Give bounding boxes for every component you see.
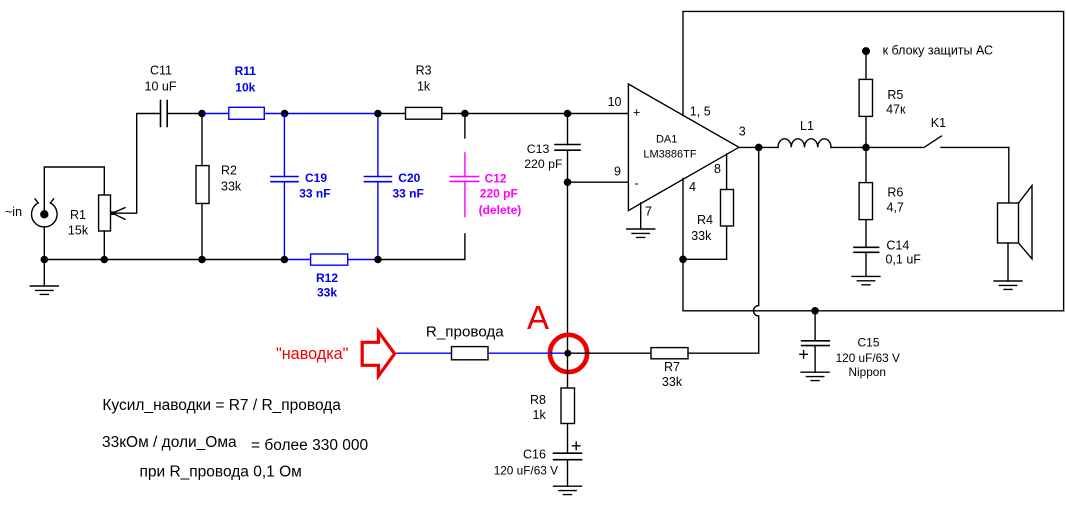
svg-text:= более 330 000: = более 330 000 — [251, 437, 369, 454]
svg-text:LM3886TF: LM3886TF — [643, 149, 696, 161]
wire C13 node down to node A — [567, 182, 569, 353]
svg-text:R5: R5 — [887, 88, 903, 102]
svg-text:C12: C12 — [485, 172, 507, 186]
node R4 bottom junction — [679, 255, 687, 263]
svg-text:33 nF: 33 nF — [299, 186, 330, 200]
wire L1 to K1 — [831, 146, 923, 148]
svg-text:R3: R3 — [416, 64, 432, 78]
node output — [755, 144, 763, 152]
svg-text:47к: 47к — [886, 103, 906, 117]
node R1 bottom — [101, 256, 109, 264]
svg-text:4,7: 4,7 — [887, 201, 904, 215]
svg-text:R6: R6 — [887, 186, 903, 200]
svg-text:при R_провода 0,1 Ом: при R_провода 0,1 Ом — [140, 463, 302, 480]
capacitor C15 — [800, 311, 900, 379]
node C13 top — [564, 110, 572, 118]
svg-text:C11: C11 — [150, 64, 172, 78]
wire R3 to op-amp — [442, 113, 629, 115]
op-amp DA1 LM3886TF — [628, 84, 739, 211]
output wire pin 3 — [739, 146, 778, 148]
svg-text:DA1: DA1 — [656, 133, 677, 145]
svg-text:-: - — [635, 177, 639, 191]
wire R1 bottom — [103, 231, 105, 260]
svg-text:"наводка": "наводка" — [276, 345, 349, 363]
svg-text:R1: R1 — [70, 208, 86, 222]
svg-text:1k: 1k — [533, 408, 547, 422]
svg-text:Кусил_наводки = R7 / R_провода: Кусил_наводки = R7 / R_провода — [102, 397, 341, 414]
node pin9 / C13 bottom — [564, 178, 572, 186]
svg-text:L1: L1 — [800, 119, 814, 133]
svg-text:33k: 33k — [662, 375, 683, 389]
resistor R4 — [683, 154, 734, 259]
ground (input) — [30, 260, 58, 295]
ground (C15) — [801, 372, 829, 380]
ground (pin 7) — [627, 229, 655, 237]
node C15 top — [811, 307, 819, 315]
svg-text:33 nF: 33 nF — [393, 186, 424, 200]
wire R7 to output (with hop over bus) — [688, 147, 759, 353]
wire node A to R7 — [568, 352, 651, 354]
ground bus — [44, 234, 465, 260]
node C20 bottom — [374, 256, 382, 264]
svg-text:C19: C19 — [305, 171, 327, 185]
svg-text:R2: R2 — [221, 164, 237, 178]
svg-text:Nippon: Nippon — [849, 365, 886, 379]
svg-text:C20: C20 — [398, 171, 420, 185]
terminal to protection block — [862, 44, 993, 58]
svg-text:120 uF/63 V: 120 uF/63 V — [494, 464, 558, 478]
pin 7 ground wire — [640, 203, 642, 229]
svg-text:1k: 1k — [417, 80, 431, 94]
svg-text:C16: C16 — [523, 448, 546, 462]
capacitor C20 — [364, 114, 423, 260]
capacitor C14 — [854, 239, 921, 277]
svg-text:120 uF/63 V: 120 uF/63 V — [836, 351, 900, 365]
svg-text:10: 10 — [608, 95, 622, 109]
svg-text:7: 7 — [645, 205, 652, 219]
resistor R3 — [406, 64, 442, 120]
svg-text:C13: C13 — [527, 142, 550, 156]
svg-text:33k: 33k — [221, 179, 242, 193]
resistor R7 — [651, 348, 688, 389]
capacitor C16 — [494, 442, 582, 486]
wire jack to ground bus — [43, 227, 45, 260]
wire C20 node to R3 — [378, 113, 406, 115]
svg-text:220 pF: 220 pF — [480, 187, 518, 201]
resistor R2 — [196, 164, 242, 204]
red block arrow — [362, 332, 394, 377]
ground (speaker) — [994, 281, 1022, 289]
svg-text:R12: R12 — [316, 271, 338, 285]
capacitor C11 — [145, 64, 177, 127]
node R5/R6 — [862, 144, 870, 152]
resistor R11 — [229, 64, 264, 119]
node jack bottom — [41, 256, 49, 264]
capacitor C19 — [271, 114, 331, 260]
ground (C14) — [852, 276, 880, 284]
resistor R6 — [859, 147, 904, 247]
wire R2 bottom — [201, 204, 203, 260]
wire R2 top — [201, 114, 203, 166]
svg-text:+: + — [633, 105, 640, 119]
feedback wire pins 1,5 up and around — [683, 11, 1064, 310]
switch K1 — [924, 116, 1009, 147]
node (R11 right / C19) — [281, 110, 289, 118]
svg-text:R_провода: R_провода — [426, 324, 504, 341]
svg-text:C15: C15 — [858, 335, 880, 349]
svg-text:15k: 15k — [68, 224, 89, 238]
wire K1 to speaker — [1008, 147, 1010, 203]
svg-text:4: 4 — [689, 180, 696, 194]
capacitor C12 (magenta, to delete) — [450, 114, 521, 217]
svg-text:C14: C14 — [886, 239, 909, 253]
inductor L1 — [778, 119, 831, 147]
wire node to R11 (blue) — [202, 113, 229, 115]
svg-text:R4: R4 — [697, 213, 713, 227]
svg-text:33k: 33k — [317, 286, 337, 300]
node A — [564, 350, 571, 357]
svg-text:R7: R7 — [664, 360, 680, 374]
svg-text:K1: K1 — [931, 116, 946, 130]
wire R1 wiper to C11 — [114, 114, 160, 214]
wire R_provoda to node A (blue) — [488, 352, 564, 354]
node R3 right / C12 — [461, 110, 469, 118]
wire R11 to C20 node (blue) — [264, 113, 378, 115]
red circle around node A — [550, 335, 587, 372]
wire arrow to R_provoda (blue) — [397, 352, 452, 354]
node C19 bottom — [281, 256, 289, 264]
svg-text:R8: R8 — [530, 393, 546, 407]
input jack ~in — [5, 199, 57, 227]
svg-text:А: А — [527, 299, 549, 336]
svg-text:220 pF: 220 pF — [524, 157, 563, 171]
resistor R5 — [859, 54, 906, 147]
resistor R_provoda — [426, 324, 504, 360]
svg-text:3: 3 — [739, 125, 746, 139]
svg-text:R11: R11 — [235, 64, 257, 78]
svg-text:33кОм / доли_Ома: 33кОм / доли_Ома — [102, 434, 237, 451]
wire pin 9 — [568, 181, 629, 183]
svg-text:9: 9 — [614, 165, 621, 179]
svg-text:к блоку защиты АС: к блоку защиты АС — [883, 44, 993, 58]
speaker — [998, 186, 1033, 259]
node R2 bottom — [198, 256, 206, 264]
ground (C16) — [554, 486, 582, 494]
svg-text:33k: 33k — [691, 229, 712, 243]
svg-text:1, 5: 1, 5 — [690, 105, 711, 119]
capacitor C13 — [524, 114, 580, 183]
wire jack to top — [44, 167, 104, 210]
node (R11 left / R2 / C11) — [198, 110, 206, 118]
svg-text:10k: 10k — [235, 80, 255, 94]
wire C11 to node — [167, 113, 202, 115]
svg-text:0,1 uF: 0,1 uF — [886, 253, 922, 267]
resistor R8 — [530, 353, 575, 453]
node C20 top — [374, 110, 382, 118]
pin 4 wire down — [683, 178, 1064, 310]
svg-text:(delete): (delete) — [479, 203, 522, 217]
speaker ground wire — [1007, 243, 1009, 281]
svg-text:~in: ~in — [5, 205, 22, 219]
svg-text:10 uF: 10 uF — [145, 80, 177, 94]
resistor R12 — [284, 254, 378, 300]
potentiometer R1 — [68, 195, 125, 238]
svg-text:8: 8 — [714, 162, 721, 176]
